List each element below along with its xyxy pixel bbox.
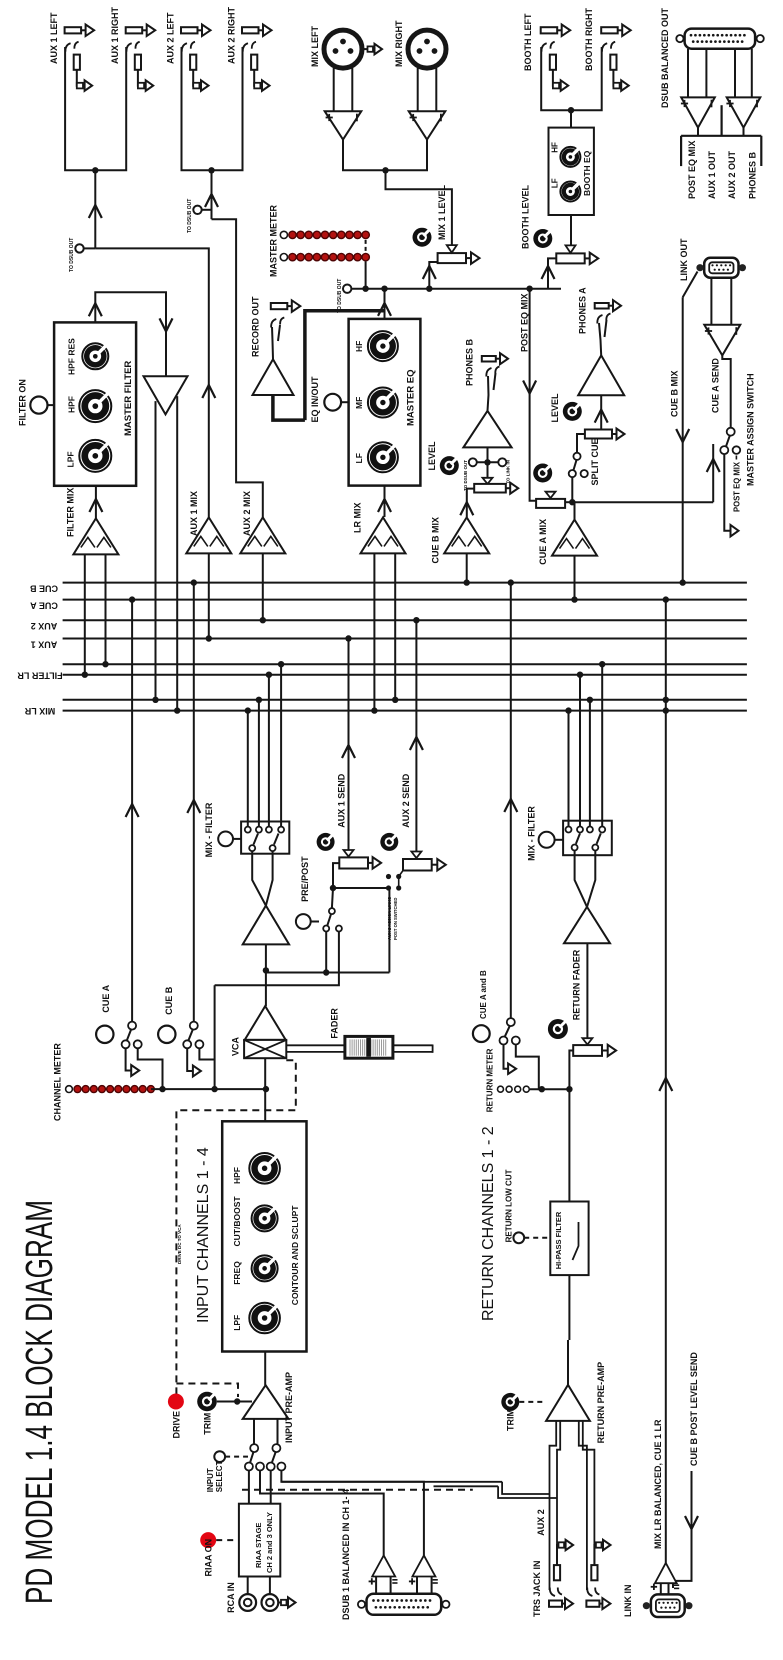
svg-text:MASTER FILTER: MASTER FILTER [123, 361, 134, 436]
switch PRE/POST [329, 908, 335, 914]
switch MASTER ASSIGN [727, 428, 735, 436]
svg-text:POST ON SWITCHED: POST ON SWITCHED [393, 898, 398, 940]
wire ch amp to vca [265, 944, 267, 1006]
wire aux1 send up [348, 639, 350, 851]
svg-text:CUE A and B: CUE A and B [479, 970, 488, 1019]
polarity labels MIX LEFT [326, 117, 333, 119]
wire hpf to preamp [568, 1275, 570, 1340]
wire cue b throw [187, 1048, 193, 1071]
connector DSUB BALANCED OUT DB25 [685, 29, 756, 49]
wires record jack [272, 327, 273, 359]
svg-text:LEVEL: LEVEL [550, 393, 560, 423]
polarity link out [705, 330, 712, 332]
box BOOTH EQ [549, 128, 594, 215]
box MIX-FILTER (channel) [241, 822, 289, 854]
svg-text:VCA: VCA [231, 1036, 241, 1056]
wire phones b amp to pot [487, 447, 489, 462]
wire fader out [393, 1044, 433, 1046]
svg-text:POST EQ MIX: POST EQ MIX [687, 140, 697, 199]
box MASTER FILTER [54, 322, 136, 485]
svg-text:AUX 1 OUT: AUX 1 OUT [707, 150, 717, 199]
wires mix-filter ret to amp [575, 851, 587, 907]
knob MIX 1 LEVEL [413, 228, 432, 247]
svg-text:FILTER ON: FILTER ON [18, 379, 28, 426]
wire low cut dashed [524, 1237, 550, 1239]
svg-text:RETURN METER: RETURN METER [486, 1048, 495, 1112]
svg-text:DRIVE DC TO VCA: DRIVE DC TO VCA [177, 1224, 182, 1264]
svg-text:CONTOUR AND SCLUPT: CONTOUR AND SCLUPT [290, 1205, 300, 1305]
svg-text:AUX 2 SEND: AUX 2 SEND [401, 773, 411, 828]
wire cue a throw [126, 1048, 132, 1070]
wire cue b mix input [466, 553, 468, 582]
wire contour to preamp [264, 1352, 266, 1386]
wire AUX 2 L/R join [182, 47, 243, 170]
wire cue a send [712, 444, 714, 502]
wire CUE B POST LEVEL SEND [673, 1471, 692, 1588]
polarity dsub in 2 [409, 1580, 415, 1582]
output jack PHONES A [595, 303, 609, 309]
switch CUE A and B [507, 1018, 515, 1026]
polarity dsub amp2 [726, 103, 733, 105]
svg-text:LF: LF [354, 453, 364, 463]
wires dsub in amp1 [375, 1577, 377, 1594]
connector LINK IN DE9 [651, 1594, 685, 1617]
junction phones b pot [484, 459, 490, 465]
master meter LED row 1 [280, 231, 287, 238]
wires dsub in amp2 [416, 1577, 418, 1594]
wire dsub mid stub [720, 105, 722, 136]
wire post tap via meter [215, 932, 339, 986]
wire eq in [384, 486, 386, 517]
wire return main [569, 1051, 573, 1202]
svg-text:AUX 1 LEFT: AUX 1 LEFT [49, 12, 59, 64]
pot AUX 2 SEND [403, 859, 432, 871]
sum amp AUX 1 MIX [186, 517, 231, 553]
junction AUX 2 pair [208, 167, 214, 173]
wire cue a pickup ch [131, 600, 133, 1022]
box MIX-FILTER (return) [563, 821, 612, 856]
button FILTER ON [30, 397, 47, 414]
wire link amp to switch [722, 355, 730, 427]
svg-text:LPF: LPF [232, 1315, 242, 1331]
wire mix1 pot feed [429, 262, 437, 289]
knob EQ MF [368, 388, 398, 418]
junction AUX 1 pair [92, 167, 98, 173]
wire cue ab throw arrow [504, 1045, 509, 1069]
svg-text:RCA IN: RCA IN [226, 1582, 236, 1613]
svg-text:RIAA STAGE: RIAA STAGE [254, 1523, 263, 1568]
svg-text:POST EQ MIX: POST EQ MIX [520, 293, 530, 352]
junction mix1 tap [426, 286, 432, 292]
node TO DSUB OUT (aux2) [193, 206, 201, 214]
knob AUX 1 SEND [317, 833, 335, 851]
junction mix lr bal m2 [663, 707, 669, 713]
wire dsub in feed 2 [281, 1471, 424, 1556]
svg-text:TO DSUB OUT: TO DSUB OUT [337, 279, 343, 313]
wires XLR L [333, 68, 335, 111]
wire MIX LR BALANCED CUE 1 LR [665, 600, 667, 1563]
wire cue a to meter line [138, 1048, 163, 1089]
wire record amp feed [273, 395, 305, 420]
svg-text:CUE B MIX: CUE B MIX [670, 370, 680, 417]
svg-text:MASTER METER: MASTER METER [269, 204, 279, 277]
svg-text:PHONES B: PHONES B [465, 338, 475, 386]
button MIX-FILTER (channel) [218, 832, 233, 847]
wire booth eq to pot [570, 215, 572, 248]
wires riaa feeds [248, 1471, 250, 1504]
bus MIX LR pair [63, 699, 747, 701]
junction cue b mix at bus [680, 579, 686, 585]
wire booth pot feed [548, 258, 556, 288]
knob HPF RES [82, 343, 108, 369]
junction filter loop mix1 [152, 697, 158, 703]
wires input select to return [281, 1481, 502, 1483]
svg-text:LR MIX: LR MIX [353, 503, 363, 534]
wire filter box in [95, 486, 97, 519]
junction fmix in1 [82, 672, 88, 678]
wire eq out up [384, 289, 386, 319]
sum amp AUX 2 MIX [240, 517, 285, 553]
amp return buffer [564, 907, 610, 943]
wire mix amps join [343, 140, 427, 171]
svg-text:CHANNEL METER: CHANNEL METER [53, 1043, 63, 1121]
svg-text:AUX 1 RIGHT: AUX 1 RIGHT [110, 6, 120, 64]
svg-text:CUE A MIX: CUE A MIX [538, 519, 548, 565]
polarity dsub in 1 [369, 1580, 375, 1582]
wires rca to riaa [247, 1577, 249, 1595]
svg-text:RECORD OUT: RECORD OUT [251, 296, 261, 357]
box CONTOUR AND SCLUPT [222, 1121, 306, 1351]
svg-text:AUX 2 OUT: AUX 2 OUT [727, 150, 737, 199]
wire dsub bracket [697, 128, 699, 136]
svg-text:HPF: HPF [232, 1167, 242, 1184]
wire AUX 1 L/R join [65, 47, 126, 170]
wires filter mix inputs [84, 554, 86, 674]
svg-text:EQ IN/OUT: EQ IN/OUT [310, 376, 320, 423]
knob BOOTH EQ HF [560, 147, 580, 167]
amp INPUT PRE-AMP [243, 1385, 289, 1419]
svg-text:CUE A SEND: CUE A SEND [711, 358, 721, 413]
svg-text:MIX LEFT: MIX LEFT [310, 26, 320, 67]
junction booth pair [568, 107, 574, 113]
wire riaa on stub [216, 1539, 239, 1541]
svg-text:POST EQ MIX: POST EQ MIX [733, 461, 742, 512]
svg-text:RETURN CHANNELS 1 - 2: RETURN CHANNELS 1 - 2 [480, 1126, 497, 1321]
wire post-eq mix main [351, 288, 561, 290]
svg-text:LEVEL: LEVEL [427, 441, 437, 471]
wires link out [710, 278, 712, 325]
svg-text:FADER: FADER [330, 1008, 340, 1039]
wire aux2 send up [415, 620, 417, 851]
wire pre tap [266, 932, 326, 973]
svg-text:BOOTH LEFT: BOOTH LEFT [523, 13, 533, 71]
sum amp FILTER MIX [73, 518, 118, 554]
junction filter loop mix2 [174, 707, 180, 713]
knob BOOTH LEVEL [533, 229, 552, 248]
wire ret amp to fader [586, 943, 588, 1038]
wires preamp inputs [253, 1419, 255, 1444]
knob AUX 2 SEND [380, 833, 398, 851]
svg-text:CUE B MIX: CUE B MIX [431, 517, 441, 564]
junction mix lr bal cue a [663, 596, 669, 602]
svg-text:CUE A: CUE A [30, 601, 58, 611]
svg-text:MIX LR BALANCED, CUE 1 LR: MIX LR BALANCED, CUE 1 LR [653, 1419, 663, 1549]
wire cue b pickup ch [193, 583, 195, 1022]
pot AUX 1 SEND [339, 857, 368, 868]
amp LINK IN [655, 1563, 677, 1583]
svg-text:MIX - FILTER: MIX - FILTER [204, 802, 214, 857]
wire input select dashed [225, 1456, 248, 1458]
button RETURN LOW CUT [513, 1232, 524, 1243]
svg-text:MASTER EQ: MASTER EQ [406, 370, 417, 426]
svg-text:CUE A: CUE A [101, 984, 111, 1012]
amp DSUB IN 2 [412, 1555, 435, 1576]
svg-text:AUX 2 MIX: AUX 2 MIX [242, 491, 252, 536]
knob TRIM (input) [197, 1392, 217, 1412]
wire trim return dashed [519, 1401, 546, 1403]
junction lrmix in1 [371, 707, 377, 713]
wire mix to level pot [386, 170, 452, 246]
node TO LINK IN (phones) [498, 458, 506, 466]
svg-text:AUX 1: AUX 1 [31, 640, 58, 650]
input jack TRS jack in 2 [586, 1601, 599, 1607]
knob CUT/BOOST [252, 1205, 278, 1231]
junction fmix in2 [102, 661, 108, 667]
wires link in [660, 1583, 662, 1594]
knob EQ LF [368, 442, 398, 472]
svg-text:SELECT: SELECT [215, 1461, 224, 1493]
node TO DSUB OUT (phones) [469, 458, 477, 466]
svg-text:HPF: HPF [67, 396, 77, 413]
amp MIX RIGHT [409, 111, 446, 139]
connector LINK OUT DE9 [704, 258, 738, 278]
svg-text:BOOTH EQ: BOOTH EQ [582, 150, 592, 196]
wire AUX 2 feed [211, 170, 213, 219]
svg-text:SPLIT CUE: SPLIT CUE [590, 438, 600, 485]
wire AUX 1 MIX to jacks [95, 248, 209, 518]
output jack RECORD OUT [271, 303, 288, 309]
box HI-PASS FILTER [550, 1202, 588, 1276]
wire cue a mix input [574, 556, 576, 600]
knob TRIM (return) [501, 1393, 519, 1411]
XLR connector MIX LEFT [324, 30, 362, 68]
switch CUE A [128, 1022, 136, 1030]
wire pre/post common [332, 863, 339, 908]
bus CUE A [63, 599, 747, 601]
amp DSUB out 2 [727, 97, 761, 127]
connector DSUB 1 DB25 [367, 1594, 442, 1615]
polarity labels MIX RIGHT [410, 117, 417, 119]
svg-text:RETURN FADER: RETURN FADER [572, 949, 582, 1020]
svg-text:PHONES A: PHONES A [578, 287, 588, 334]
knob LEVEL phones a [563, 402, 582, 421]
svg-text:LF: LF [551, 178, 560, 188]
junction meter cue b [211, 1086, 217, 1092]
svg-text:TRS JACK IN: TRS JACK IN [532, 1560, 542, 1617]
box RIAA STAGE [239, 1504, 280, 1577]
knob EQ HF [368, 331, 398, 361]
jack thru MIX LEFT [362, 48, 368, 50]
wire post eq alt [724, 454, 730, 531]
wire dsub bracket left leg [680, 136, 682, 166]
wires phones a jack [599, 323, 601, 355]
svg-text:RIAA ON: RIAA ON [204, 1539, 214, 1577]
wires lr mix inputs [373, 553, 375, 710]
output jack BOOTH LEFT [541, 27, 558, 33]
junction meter cue a [159, 1086, 165, 1092]
knob BOOTH EQ LF [560, 182, 580, 202]
button CUE A and B [473, 1025, 490, 1042]
svg-text:HF: HF [551, 142, 560, 153]
wire phones a pot to amp [600, 395, 602, 429]
wire cue a pot out [565, 501, 572, 503]
junction return meter [539, 1086, 545, 1092]
red node DRIVE [168, 1394, 184, 1410]
junction mix pair [382, 167, 388, 173]
svg-text:RETURN PRE-AMP: RETURN PRE-AMP [596, 1362, 606, 1444]
svg-text:AUX 2: AUX 2 [536, 1509, 546, 1536]
amp LINK OUT [704, 325, 740, 356]
button CUE A [96, 1026, 113, 1043]
bus AUX 2 [63, 619, 747, 621]
wire meter link dashed [365, 240, 367, 253]
wire cue a out horiz [572, 501, 713, 503]
knob RETURN FADER [548, 1019, 568, 1039]
switch INPUT SELECT pole 1 [250, 1444, 258, 1452]
junction lrmix in2 [392, 697, 398, 703]
svg-text:LINK IN: LINK IN [623, 1585, 633, 1618]
svg-text:INPUT CHANNELS 1 - 4: INPUT CHANNELS 1 - 4 [195, 1147, 212, 1323]
svg-text:HF: HF [354, 341, 364, 352]
output jack BOOTH RIGHT [601, 27, 618, 33]
svg-text:AUX 1 MIX: AUX 1 MIX [189, 491, 199, 536]
XLR connector MIX RIGHT [408, 30, 446, 68]
svg-text:PRE/POST: PRE/POST [300, 856, 310, 902]
svg-text:CUE B POST LEVEL SEND: CUE B POST LEVEL SEND [689, 1352, 699, 1466]
wire return meter line [530, 1088, 569, 1090]
svg-text:AUX 1 SEND: AUX 1 SEND [337, 773, 347, 828]
dashed box INPUT CHANNELS [176, 1060, 295, 1395]
amp DSUB out 1 [681, 97, 715, 127]
pot RETURN FADER [582, 1038, 592, 1044]
switch INPUT SELECT pole 2 [272, 1444, 280, 1452]
junction eq out [381, 286, 387, 292]
wire AUX 2 MIX to jacks [212, 219, 263, 518]
svg-text:INPUT: INPUT [206, 1468, 215, 1492]
amp PHONES A [578, 355, 624, 395]
wire booth join [541, 47, 602, 110]
svg-text:PD MODEL 1.4 BLOCK DIAGRAM: PD MODEL 1.4 BLOCK DIAGRAM [19, 1200, 61, 1604]
svg-text:FILTER MIX: FILTER MIX [66, 488, 76, 537]
svg-text:PHONES B: PHONES B [747, 151, 757, 199]
button PRE/POST [296, 914, 311, 929]
svg-text:DRIVE: DRIVE [172, 1411, 182, 1439]
output jack AUX 2 LEFT [181, 27, 198, 33]
svg-text:MASTER ASSIGN SWITCH: MASTER ASSIGN SWITCH [746, 373, 756, 486]
sum amp LR MIX [361, 517, 406, 553]
wire meter feed [365, 261, 367, 288]
svg-text:FILTER LR: FILTER LR [17, 671, 63, 681]
wire cue ab to meter [516, 1045, 542, 1090]
wires XLR R [417, 68, 419, 111]
bus CUE B [63, 582, 747, 584]
switch CUE B [190, 1022, 198, 1030]
pot CUE A LEVEL [546, 492, 556, 498]
svg-text:LPF: LPF [66, 451, 76, 467]
svg-text:TO DSUB OUT: TO DSUB OUT [463, 460, 468, 491]
output jack AUX 2 RIGHT [242, 27, 259, 33]
sum amp CUE A MIX [552, 520, 597, 556]
button CUE B [158, 1026, 175, 1043]
svg-text:CUT/BOOST: CUT/BOOST [232, 1196, 242, 1247]
master meter LED row 2 [280, 254, 287, 261]
amp channel buffer [243, 906, 289, 945]
svg-text:HI-PASS FILTER: HI-PASS FILTER [554, 1211, 563, 1269]
svg-text:MIX 1 LEVEL: MIX 1 LEVEL [437, 184, 447, 240]
svg-text:BOOTH RIGHT: BOOTH RIGHT [584, 8, 594, 71]
input jack TRS jack in 1 [549, 1601, 562, 1607]
box VCA multiplier [244, 1040, 286, 1058]
pot MIX 1 LEVEL [438, 253, 466, 263]
wire trim to preamp [217, 1401, 252, 1403]
svg-text:TO LINK IN: TO LINK IN [506, 460, 511, 484]
polarity link in [651, 1586, 657, 1588]
wire cue b mix to phones pot [467, 489, 474, 517]
button INPUT SELECT [214, 1451, 225, 1462]
wires return preamp inputs [550, 1421, 557, 1590]
wire CUE B MIX line [682, 297, 684, 582]
node TO DSUB OUT (mix) [343, 285, 351, 293]
wires mix-filter ch to buses [247, 711, 249, 827]
knob LPF [79, 440, 111, 472]
svg-text:AUX 2 ASSIGN LINKS: AUX 2 ASSIGN LINKS [387, 897, 392, 940]
wire split cue throw [571, 477, 573, 502]
return meter LEDs [498, 1086, 504, 1092]
switch SPLIT CUE [577, 434, 585, 452]
amp RECORD OUT [253, 359, 294, 395]
node TO DSUB OUT (aux1) [75, 244, 83, 252]
knob HPF [79, 390, 111, 422]
polarity dsub amp1 [681, 103, 688, 105]
wire AUX 1 feed [94, 170, 96, 248]
svg-text:LINK OUT: LINK OUT [679, 238, 689, 281]
svg-text:CUE B: CUE B [164, 986, 174, 1015]
sum amp CUE B MIX [444, 517, 489, 553]
output jack AUX 1 RIGHT [126, 27, 143, 33]
pot PHONES B LEVEL [483, 478, 493, 484]
wire aux2 mix input [262, 553, 264, 620]
junction cue a out [569, 499, 575, 505]
amp MIX LEFT [325, 111, 362, 139]
switch contacts mix-filter ch [245, 827, 251, 833]
wires mix-filter ret to buses [568, 711, 570, 827]
wire aux1 mix input [208, 553, 210, 638]
junction meter vca [263, 1086, 269, 1092]
jumpers AUX 2 ASSIGN [386, 874, 391, 879]
junction aux feed [330, 885, 336, 891]
fader component [286, 1044, 345, 1046]
svg-text:CH 2 and 3 ONLY: CH 2 and 3 ONLY [265, 1512, 274, 1573]
connector RCA IN [239, 1594, 256, 1611]
wire return cue pickup [510, 583, 512, 1019]
svg-text:TRIM: TRIM [506, 1409, 516, 1431]
svg-text:DSUB 1 BALANCED IN CH 1- 4: DSUB 1 BALANCED IN CH 1- 4 [341, 1489, 351, 1620]
svg-text:HPF RES: HPF RES [67, 338, 77, 375]
knob FREQ [252, 1255, 278, 1281]
switch contacts mix-filter ret [566, 827, 572, 833]
svg-text:BOOTH LEVEL: BOOTH LEVEL [521, 184, 531, 249]
svg-text:TRIM: TRIM [203, 1413, 213, 1435]
